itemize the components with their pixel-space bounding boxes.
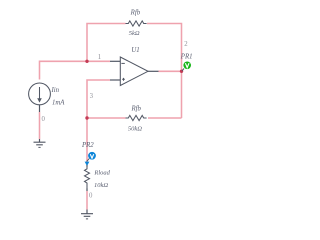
ground bottom	[81, 214, 93, 219]
wire Rload bottom to ground	[86, 188, 88, 213]
svg-text:0: 0	[42, 116, 46, 123]
svg-text:10kΩ: 10kΩ	[94, 182, 108, 189]
current source value 1mA	[52, 99, 65, 106]
svg-text:1mA: 1mA	[52, 99, 65, 106]
resistor Rload zigzag	[85, 165, 90, 191]
svg-text:1: 1	[98, 54, 101, 61]
svg-text:5kΩ: 5kΩ	[129, 30, 140, 37]
svg-text:Rload: Rload	[93, 170, 110, 177]
svg-text:PR2: PR2	[81, 142, 94, 149]
net 0 label bottom	[89, 193, 93, 200]
probe PR1 label	[180, 54, 193, 61]
probe PR2 direction arrow	[85, 162, 90, 166]
wire current source top to node A	[40, 61, 88, 79]
svg-text:0: 0	[89, 193, 93, 200]
svg-text:3: 3	[90, 93, 94, 100]
svg-text:Rfb: Rfb	[130, 105, 141, 112]
svg-text:PR1: PR1	[180, 54, 193, 61]
probe PR1 voltage probe icon	[182, 62, 191, 71]
op-amp U1 label	[131, 47, 139, 54]
net 0 label left	[42, 116, 46, 123]
pin 3 label	[90, 93, 94, 100]
wire op-amp output to output node	[147, 70, 182, 72]
wire top-left L (node A to R1 left)	[87, 24, 126, 62]
resistor R2 label Rfb	[130, 105, 141, 112]
wire node A to op-amp inverting input	[87, 60, 120, 62]
wire top-right L (R1 right down to output node)	[147, 24, 182, 72]
node B junction	[85, 116, 88, 119]
svg-text:50kΩ: 50kΩ	[128, 126, 142, 133]
svg-text:2: 2	[184, 41, 188, 48]
svg-text:U1: U1	[131, 47, 139, 54]
resistor R2 value 50kΩ	[128, 126, 142, 133]
probe PR2 current probe icon	[87, 152, 96, 161]
wire right vertical output node down to R2	[181, 71, 183, 118]
probe PR2 label	[81, 142, 94, 149]
resistor R1 Rfb 5k zigzag	[126, 21, 147, 26]
resistor R1 value 5kΩ	[129, 30, 140, 37]
svg-text:Rfb: Rfb	[130, 10, 141, 17]
wire op-amp noninverting input down to node B and Rload	[87, 80, 120, 167]
output node junction	[180, 70, 183, 73]
op-amp U1 triangle	[120, 57, 148, 86]
ground left	[34, 142, 46, 147]
pin 2 label	[184, 41, 188, 48]
resistor R1 label Rfb	[130, 10, 141, 17]
resistor Rload label	[93, 170, 110, 177]
node A junction	[85, 60, 88, 63]
wire current source bottom to ground	[39, 105, 41, 142]
wire R2 right to right vertical	[148, 117, 182, 119]
resistor Rload value 10kΩ	[94, 182, 108, 189]
pin 1 label	[98, 54, 101, 61]
current source Iin circle	[29, 83, 51, 105]
wire node B to R2 left	[87, 117, 126, 119]
resistor R2 Rfb 50k zigzag	[126, 115, 147, 120]
current source label Iin	[51, 87, 60, 94]
svg-text:Iin: Iin	[51, 87, 60, 94]
